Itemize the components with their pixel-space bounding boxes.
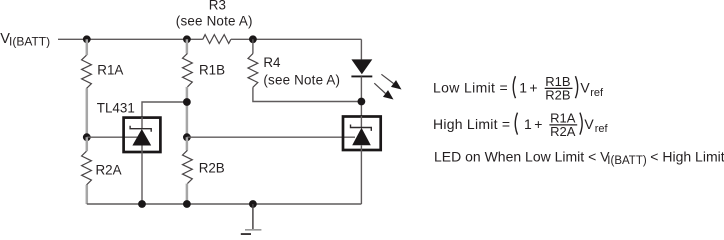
svg-text:R2B: R2B — [199, 160, 225, 175]
wire ref node to U2 — [187, 136, 355, 138]
node dot U1 anode — [138, 200, 146, 208]
svg-text:R3: R3 — [209, 0, 226, 12]
node dot R1A R2A ref — [83, 133, 91, 141]
formula low limit — [433, 74, 604, 103]
wire top rail corner down to LED anode — [360, 39, 362, 59]
ground — [241, 204, 262, 234]
svg-text:I(BATT): I(BATT) — [9, 34, 50, 48]
resistor R4 — [248, 54, 340, 88]
wire R4 bottom lead to LED cathode node — [253, 87, 362, 101]
resistor R1A — [82, 55, 124, 88]
svg-text:R4: R4 — [263, 55, 281, 70]
node dot R1B R2B ref — [183, 133, 191, 141]
resistor R2A — [82, 137, 122, 204]
svg-text:1: 1 — [519, 80, 527, 96]
svg-text:+: + — [534, 116, 542, 132]
svg-text:R1A: R1A — [97, 63, 123, 78]
wire ref node to U1 — [87, 136, 138, 138]
svg-text:R1B: R1B — [199, 62, 225, 77]
svg-text:R2A: R2A — [550, 124, 576, 139]
svg-text:(see Note A): (see Note A) — [176, 14, 253, 29]
wire U1 cathode up-right to R1B node — [142, 102, 187, 117]
svg-text:LED on When Low Limit < V: LED on When Low Limit < V — [434, 149, 610, 165]
wire U1 anode down — [141, 153, 143, 205]
svg-text:(see Note A): (see Note A) — [263, 72, 340, 87]
wire bottom rail — [87, 203, 362, 205]
node dot top rail R1B — [183, 35, 191, 43]
node dot U1 cathode R1B — [183, 98, 191, 106]
node dot top rail R4 — [249, 35, 257, 43]
node dot top rail R1A — [83, 35, 91, 43]
formula LED condition — [434, 149, 724, 168]
svg-text:ref: ref — [590, 87, 604, 99]
node VI(BATT) label — [0, 31, 50, 48]
node dot LED R4 — [358, 98, 366, 106]
transistor U1 TL431 box — [124, 117, 161, 153]
svg-text:TL431: TL431 — [97, 101, 135, 116]
resistor R3 — [176, 0, 253, 43]
resistor R2B — [183, 137, 225, 204]
svg-text:1: 1 — [524, 116, 532, 132]
node dot ground — [249, 200, 257, 208]
wire R1A top lead — [86, 39, 89, 55]
resistor R1B — [183, 53, 226, 87]
svg-text:R2A: R2A — [96, 163, 122, 178]
wire top rail left of R3 — [58, 38, 203, 40]
node dot R2B bottom — [183, 200, 191, 208]
wire U2 anode down — [360, 152, 362, 205]
wire R1B bottom lead — [186, 87, 189, 137]
wire R1B top lead — [186, 39, 189, 53]
wire R4 top lead — [252, 39, 254, 53]
diode LED D1 — [351, 59, 401, 99]
svg-text:V: V — [580, 80, 590, 96]
svg-text:High Limit =: High Limit = — [433, 116, 510, 132]
wire R1A bottom lead — [86, 88, 89, 137]
wire top rail right of R3 — [231, 38, 362, 40]
svg-text:< High Limit: < High Limit — [650, 149, 724, 165]
transistor U2 TL431 box — [343, 116, 381, 152]
svg-text:+: + — [529, 80, 537, 96]
wire LED cathode down to U2 — [360, 76, 362, 116]
svg-text:I(BATT): I(BATT) — [607, 155, 647, 167]
formula high limit — [433, 110, 608, 139]
svg-text:Low Limit =: Low Limit = — [433, 80, 508, 96]
svg-text:V: V — [584, 116, 594, 132]
svg-text:R2B: R2B — [545, 88, 570, 103]
svg-text:ref: ref — [595, 123, 609, 135]
